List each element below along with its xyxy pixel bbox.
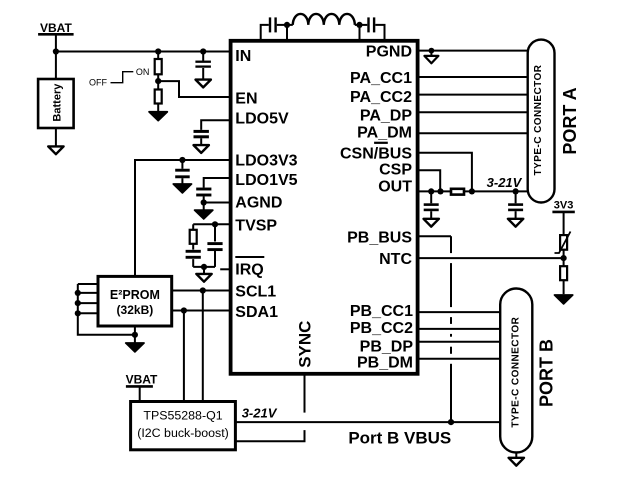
wire SYNC from IC down: [304, 374, 306, 413]
svg-text:Battery: Battery: [51, 83, 63, 122]
wire PGND ground stub: [430, 51, 432, 56]
ground (filled) below EN divider: [149, 112, 167, 121]
node junction dot SW1: [284, 22, 290, 28]
node junction dot EEPROM pin3: [75, 300, 81, 306]
wire battery to ground: [55, 128, 57, 146]
capacitor C_OUT2: [508, 191, 523, 218]
node junction dot IN cap: [200, 48, 206, 54]
node junction dot SCL1: [200, 287, 206, 293]
wire SW2 down to IC: [359, 25, 361, 41]
node VBAT power flag top-left: [38, 21, 74, 52]
wire CSN/BUS to sense resistor right: [418, 153, 472, 192]
wire TVSP RC bottom: [193, 266, 215, 268]
svg-text:3V3: 3V3: [554, 200, 574, 212]
ground (open) below Port B connector: [509, 458, 524, 466]
node junction dot TVSP: [212, 221, 218, 227]
svg-text:TYPE-C CONNECTOR: TYPE-C CONNECTOR: [510, 316, 521, 427]
node junction dot EEPROM ground: [132, 332, 138, 338]
wire CSP to sense resistor left: [418, 170, 440, 191]
capacitor C_BST1 series: [270, 17, 287, 32]
svg-text:PA_CC1: PA_CC1: [350, 70, 412, 87]
svg-text:IN: IN: [235, 48, 251, 65]
svg-text:PB_CC1: PB_CC1: [350, 303, 413, 320]
node junction dot NTC divider: [561, 255, 567, 261]
svg-text:PGND: PGND: [366, 43, 412, 60]
wire PB_CC1: [418, 311, 501, 313]
svg-text:CSN/BUS: CSN/BUS: [340, 145, 412, 162]
svg-text:TVSP: TVSP: [235, 217, 277, 234]
node junction dot CSP: [437, 188, 443, 194]
wire PB_BUS horizontal: [418, 235, 451, 237]
svg-text:EN: EN: [235, 91, 257, 108]
svg-text:PORT A: PORT A: [560, 87, 580, 154]
node junction dot AGND: [201, 199, 207, 205]
capacitor C_IN: [195, 52, 211, 80]
svg-text:3-21V: 3-21V: [242, 406, 278, 421]
svg-text:ON: ON: [136, 67, 150, 77]
resistor R1 EN divider upper: [155, 52, 162, 82]
wire LDO1V5 pin to cap: [204, 178, 230, 188]
ground (open) at PGND: [424, 56, 438, 63]
ground (filled) below NTC divider: [555, 295, 573, 304]
wire SDA1 to EEPROM: [172, 310, 230, 312]
node junction dot SDA1: [181, 307, 187, 313]
wire PB_BUS vertical with hops: [450, 236, 452, 422]
svg-text:LDO5V: LDO5V: [235, 110, 289, 127]
connector J2 Port B Type-C: [500, 289, 532, 453]
svg-text:VBAT: VBAT: [126, 372, 158, 386]
svg-text:SCL1: SCL1: [235, 284, 276, 301]
ground (open) below battery: [48, 146, 63, 154]
wire PB_DM: [418, 358, 501, 360]
svg-text:NTC: NTC: [379, 251, 412, 268]
svg-text:3-21V: 3-21V: [487, 175, 523, 190]
wire NTC: [418, 257, 564, 259]
resistor R2 EN divider lower: [155, 81, 162, 111]
svg-text:(32kB): (32kB): [117, 303, 154, 317]
connector J1 Port A Type-C: [528, 40, 555, 203]
node junction dot SW2: [356, 22, 362, 28]
wire LDO3V3 rail: [135, 160, 230, 276]
svg-text:OFF: OFF: [89, 78, 107, 88]
capacitor C_OUT1: [424, 191, 439, 218]
svg-text:PB_DP: PB_DP: [360, 338, 414, 355]
wire EEPROM left pin 1: [78, 283, 98, 285]
svg-text:PA_DP: PA_DP: [360, 108, 412, 125]
capacitor C_TVSP2: [207, 224, 222, 267]
node junction dot CSN: [469, 188, 475, 194]
node junction dot OUT cap2 3-21V: [513, 188, 519, 194]
wire SCL1 down to buck-boost: [202, 291, 204, 402]
node junction dot TVSP ground: [201, 264, 207, 270]
IC U1 USB PD controller body: [231, 41, 418, 374]
wire LDO5V pin to cap: [201, 120, 230, 130]
wire SYNC hook to buck-boost: [235, 430, 304, 441]
node VBAT power flag above buck-boost: [126, 372, 158, 401]
resistor R_TVSP: [190, 224, 197, 249]
svg-text:SYNC: SYNC: [295, 321, 314, 368]
node junction dot EN divider mid: [155, 78, 161, 84]
IC U3 TPS55288-Q1 buck-boost body: [131, 402, 236, 450]
ground (open) below C_IN: [196, 80, 211, 88]
svg-text:SDA1: SDA1: [235, 304, 278, 321]
resistor R_NTC pulldown: [560, 258, 567, 294]
wire EEPROM left pin 4: [78, 312, 98, 314]
wire EEPROM left pin 3: [78, 302, 98, 304]
node junction dot OUT cap1: [428, 188, 434, 194]
svg-text:PA_CC2: PA_CC2: [350, 89, 412, 106]
battery BT1: [38, 79, 74, 128]
wire EEPROM left bus to ground: [78, 284, 135, 335]
node junction dot LDO3V3 cap: [179, 157, 185, 163]
capacitor C_LDO3V3: [175, 160, 190, 184]
node junction dot PB_BUS to VBUS rail: [448, 419, 454, 425]
wire PB_CC2: [418, 328, 501, 330]
wire VBAT rail to IN pin: [56, 51, 230, 53]
pin label IRQ with overline: [235, 257, 264, 279]
svg-text:TPS55288-Q1: TPS55288-Q1: [143, 409, 222, 423]
wire buck-boost output Port B VBUS rail: [235, 421, 500, 423]
svg-text:IRQ: IRQ: [235, 262, 263, 279]
wire PA_DM: [418, 132, 529, 134]
svg-text:AGND: AGND: [235, 194, 282, 211]
svg-text:PB_BUS: PB_BUS: [347, 229, 412, 246]
wire EEPROM bottom pin: [134, 326, 136, 343]
ground (open) below C_LDO5V: [194, 145, 209, 153]
wire IC top pin1 to series cap: [261, 25, 269, 41]
node junction dot VBAT/battery: [53, 48, 59, 54]
IC U2 EEPROM body: [98, 276, 172, 326]
wire PA_CC2: [418, 94, 529, 96]
capacitor C_LDO1V5: [196, 189, 211, 203]
wire EEPROM left pin 2: [78, 292, 98, 294]
svg-text:OUT: OUT: [378, 179, 412, 196]
wire PA_CC1: [418, 76, 529, 78]
capacitor C_LDO5V: [194, 131, 209, 145]
node junction dot EN divider top: [155, 48, 161, 54]
ground (open) below C_OUT2: [508, 219, 523, 227]
capacitor C_TVSP1 series under resistor: [186, 251, 201, 267]
wire EN divider to EN pin: [158, 81, 230, 97]
wire SDA1 down to buck-boost: [183, 311, 185, 402]
wire SW1 down to IC: [286, 25, 288, 41]
thermistor RT1 NTC: [555, 232, 571, 259]
wire SCL1 to EEPROM: [172, 290, 230, 292]
wire OUT to Port A VBUS: [418, 190, 528, 192]
svg-text:CSP: CSP: [379, 161, 412, 178]
svg-text:TYPE-C CONNECTOR: TYPE-C CONNECTOR: [533, 64, 544, 175]
node junction dot EEPROM pin4: [75, 310, 81, 316]
ground (filled) below EEPROM: [126, 343, 144, 352]
node junction dot EEPROM pin2: [75, 290, 81, 296]
wire battery to rail: [55, 52, 57, 80]
wire AGND pin: [204, 202, 230, 204]
wire TVSP bottom to ground: [203, 267, 205, 274]
svg-text:PB_CC2: PB_CC2: [350, 320, 413, 337]
wire IC top pin4 from series cap: [375, 25, 384, 41]
svg-text:PB_DM: PB_DM: [357, 354, 413, 371]
svg-text:PA_DM: PA_DM: [357, 125, 412, 142]
node 3V3 power flag: [552, 200, 574, 236]
svg-text:E²PROM: E²PROM: [110, 288, 160, 302]
ground (filled) below C_LDO3V3: [173, 184, 191, 193]
wire AGND to ground: [203, 203, 205, 211]
annotation OFF/ON step waveform: [89, 67, 149, 87]
inductor L1: [287, 14, 360, 25]
svg-text:VBAT: VBAT: [40, 21, 72, 35]
wire PA_DP: [418, 111, 529, 113]
wire IRQ stub: [220, 268, 230, 270]
ground (open) below TVSP network: [196, 274, 211, 282]
svg-text:LDO1V5: LDO1V5: [235, 172, 297, 189]
wire Port B connector ground stub: [515, 453, 517, 458]
svg-text:LDO3V3: LDO3V3: [235, 153, 297, 170]
svg-text:PORT B: PORT B: [536, 339, 556, 407]
resistor R_SENSE current sense: [451, 189, 464, 195]
wire TVSP pin: [193, 223, 230, 225]
capacitor C_BST2 series: [360, 17, 375, 32]
svg-text:(I2C buck-boost): (I2C buck-boost): [137, 426, 229, 440]
node junction dot PGND ground: [429, 48, 435, 54]
wire PGND to Port A connector: [418, 50, 529, 52]
wire PB_DP: [418, 341, 501, 343]
svg-text:Port B VBUS: Port B VBUS: [348, 429, 451, 448]
ground (open) below C_OUT1: [424, 219, 439, 227]
ground (filled) below AGND: [195, 210, 213, 219]
